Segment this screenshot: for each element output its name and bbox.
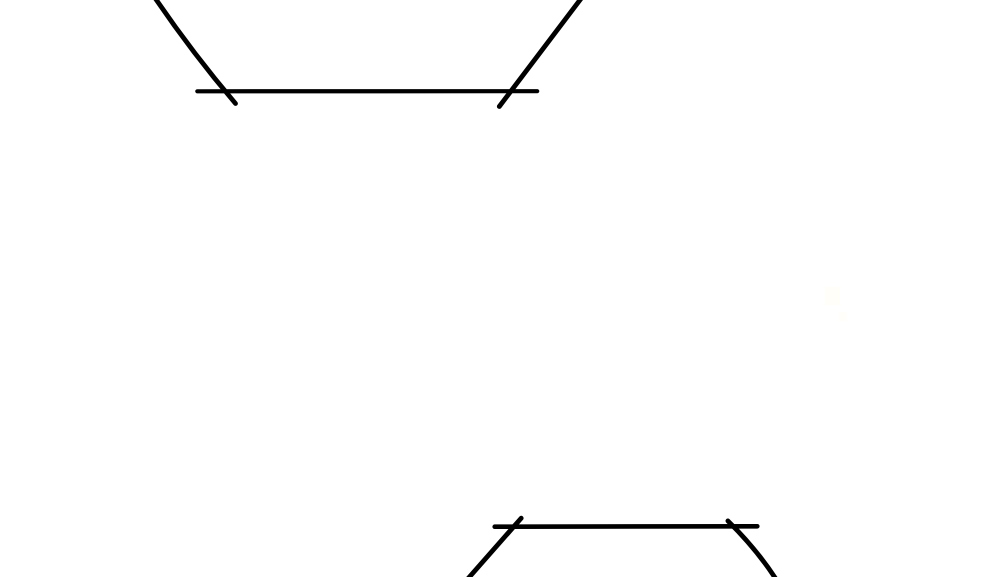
top hexagon: right slanted edge [499, 0, 584, 107]
faint smudge B [839, 312, 847, 321]
top hexagon: left slanted edge [151, 0, 236, 104]
bottom hexagon: top horizontal edge [495, 524, 758, 529]
bottom hexagon: right slanted edge [728, 521, 778, 577]
faint smudge A [825, 287, 840, 305]
bottom hexagon: left slanted edge [465, 518, 521, 577]
top hexagon: bottom horizontal edge [197, 89, 537, 93]
